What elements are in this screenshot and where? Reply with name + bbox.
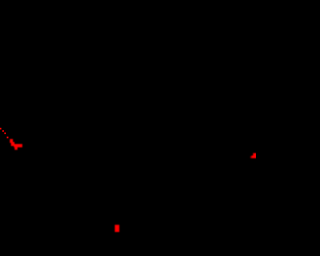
dotted red trajectory line, upper-left (0, 128, 1, 130)
red blob / thick stroke at end of line (10, 139, 13, 143)
red step shape at right edge (253, 153, 257, 156)
small red rectangle, bottom centre (115, 225, 120, 232)
